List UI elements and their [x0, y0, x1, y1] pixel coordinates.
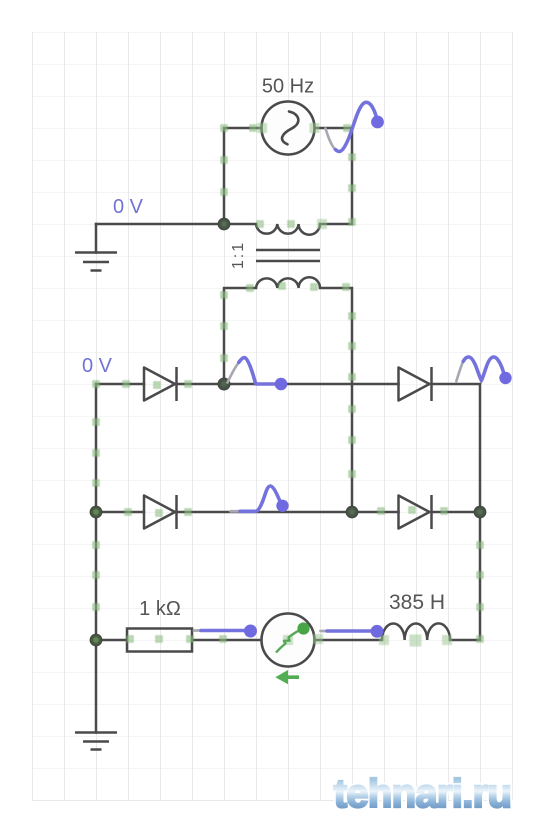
svg-text:0 V: 0 V [82, 355, 113, 377]
svg-text:tehnari.ru: tehnari.ru [334, 772, 511, 816]
svg-text:50 Hz: 50 Hz [262, 76, 314, 98]
svg-text:1 kΩ: 1 kΩ [139, 598, 181, 620]
svg-text:0 V: 0 V [113, 196, 144, 218]
svg-text:1:1: 1:1 [230, 241, 247, 269]
svg-text:385 H: 385 H [389, 591, 445, 614]
